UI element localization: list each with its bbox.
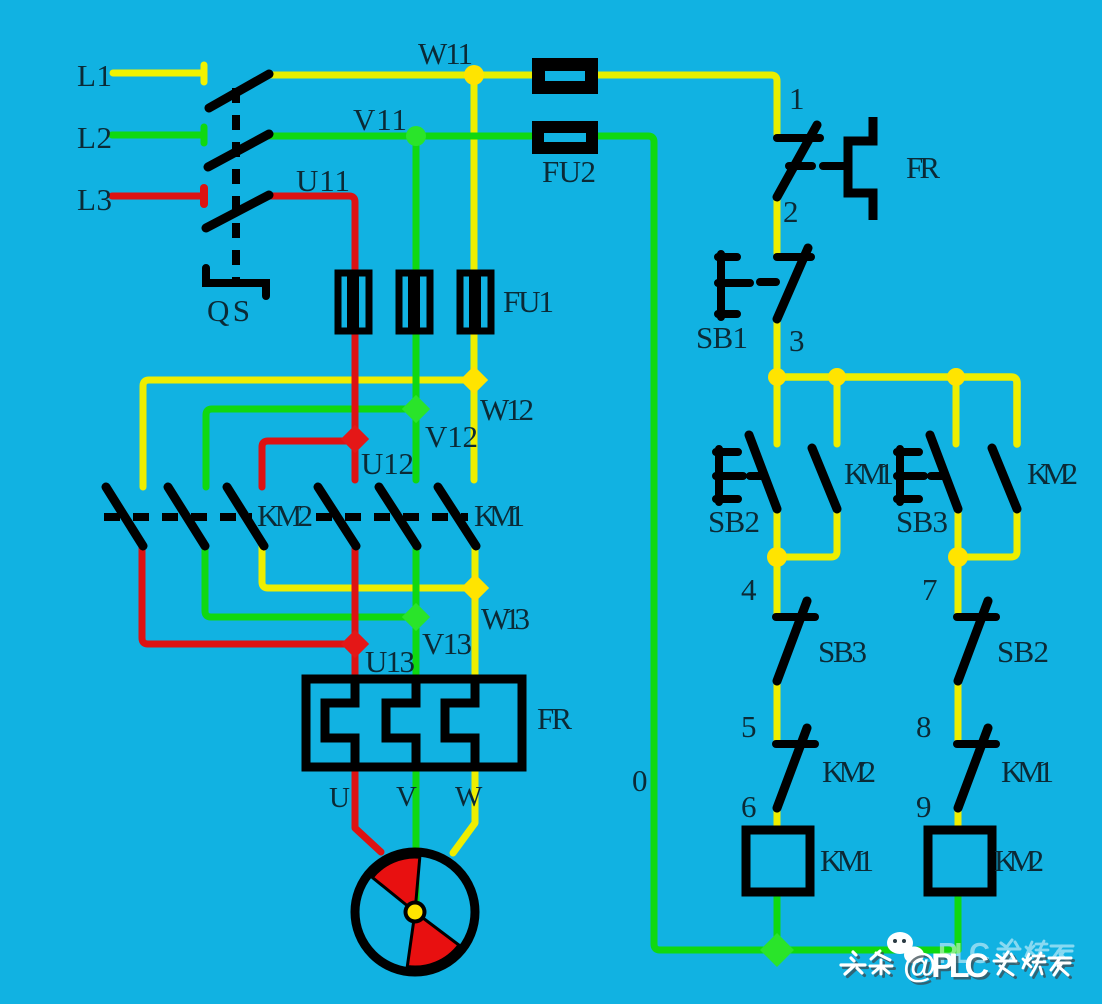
SB3 NC blade xyxy=(777,601,807,681)
wire L1 terminal cap xyxy=(201,65,208,82)
svg-text:3: 3 xyxy=(789,323,805,358)
watermark shadow layer xyxy=(844,950,1074,988)
SB3 NC fixed bar xyxy=(776,613,815,621)
KM2 main blade 1 xyxy=(106,487,143,546)
wire KM2 coil to bottom bus (green) xyxy=(955,893,962,950)
motor body ring xyxy=(355,852,475,972)
KM2 main blade 2 xyxy=(168,487,205,546)
svg-text:SB2: SB2 xyxy=(997,634,1049,669)
SB3 actuator dash xyxy=(931,472,944,480)
node 3c on control bus xyxy=(947,368,965,386)
FR contact fixed bar xyxy=(777,134,820,142)
wire L2 terminal cap xyxy=(201,127,208,143)
coil KM2 xyxy=(928,830,992,892)
node bottom bus junction xyxy=(760,933,794,967)
svg-text:SB3: SB3 xyxy=(818,634,867,669)
QS blade 2 xyxy=(208,134,269,167)
svg-text:V12: V12 xyxy=(425,419,478,454)
svg-text:8: 8 xyxy=(916,709,932,744)
svg-text:W13: W13 xyxy=(481,601,530,636)
wire W11: QS to FU2 to node 1 down to FR contact (yellow) xyxy=(269,75,777,134)
wire KM2 aux bottom to node 7 bus (yellow) xyxy=(958,508,1017,557)
KM1 linkage dashed xyxy=(316,513,468,521)
svg-text:U12: U12 xyxy=(361,446,414,481)
wire KM1 aux bottom to node 4 bus (yellow) xyxy=(777,508,837,557)
svg-text:U11: U11 xyxy=(296,163,350,198)
svg-text:KM1: KM1 xyxy=(844,456,894,491)
node 3a on control bus xyxy=(768,368,786,386)
SB1 blade xyxy=(777,248,808,319)
node U13 xyxy=(341,630,369,658)
wire KM1 pole1 bottom to FR heater1 (red) xyxy=(352,548,359,680)
wire KM1 NC to KM2 coil (yellow) xyxy=(955,806,962,830)
SB3 actuator E xyxy=(897,449,924,502)
watermark ghost fa xyxy=(998,940,1020,963)
FR contact link dash xyxy=(823,162,845,170)
wire L3 terminal cap xyxy=(200,188,208,204)
wire FR out V to motor centre (green) xyxy=(413,766,420,903)
FR contact blade xyxy=(777,125,817,197)
wire node4 to SB3 NC (yellow) xyxy=(774,557,781,617)
SB2 NC blade xyxy=(958,601,988,681)
node 7 xyxy=(948,547,968,567)
wire L3 input (red) xyxy=(112,193,204,200)
svg-text:FR: FR xyxy=(537,701,572,736)
KM2 NC fixed bar xyxy=(776,740,815,748)
svg-text:KM2: KM2 xyxy=(1027,456,1078,491)
node U12 xyxy=(341,425,369,453)
fuse FU2 a xyxy=(539,65,592,88)
wire KM2 pole1 bottom to U13 node (red) xyxy=(142,545,355,644)
svg-text:L3: L3 xyxy=(77,182,112,217)
KM2 aux blade xyxy=(992,448,1017,509)
KM2 main blade 3 xyxy=(227,487,264,546)
wire L2 input (green) xyxy=(112,132,204,139)
wire node2 FR-contact to SB1 (yellow) xyxy=(774,197,781,253)
svg-text:W: W xyxy=(455,781,483,813)
svg-text:QS: QS xyxy=(207,293,250,328)
svg-text:KM1: KM1 xyxy=(474,498,525,533)
KM2 NC blade xyxy=(777,728,807,808)
svg-text:9: 9 xyxy=(916,789,932,824)
wire KM1 coil to bottom bus (green) xyxy=(774,893,781,950)
watermark ghost you xyxy=(1051,946,1073,963)
coil KM1 xyxy=(746,830,810,892)
KM1 aux blade xyxy=(812,448,837,509)
wire V-phase vertical: V11 down through FU1 to V12 and KM1 pole2 (green) xyxy=(413,136,420,480)
svg-text:W12: W12 xyxy=(480,392,534,427)
wire FR out W to motor (yellow) xyxy=(453,766,475,853)
svg-text:FU2: FU2 xyxy=(542,154,596,189)
svg-text:7: 7 xyxy=(922,572,938,607)
svg-text:FR: FR xyxy=(906,150,940,185)
node 3b on control bus xyxy=(828,368,846,386)
svg-text:W11: W11 xyxy=(418,36,473,71)
SB1 actuator dash xyxy=(760,278,776,286)
SB1 actuator E xyxy=(718,254,750,317)
svg-text:V13: V13 xyxy=(422,626,472,661)
watermark icon bubbles xyxy=(887,932,924,964)
fuse FU2 b xyxy=(538,127,592,148)
node V11 xyxy=(406,126,426,146)
QS handle bracket xyxy=(206,268,266,296)
svg-text:U: U xyxy=(329,782,350,814)
wire KM2 NC to KM1 coil (yellow) xyxy=(774,806,781,830)
svg-text:KM2: KM2 xyxy=(257,498,313,533)
wire bus drop to SB2 (yellow) xyxy=(774,377,781,444)
fuse FU1 c xyxy=(460,273,491,331)
wire V12 branch left to KM2 pole2 (green) xyxy=(206,409,416,487)
wire W12 branch left to KM2 pole1 (yellow) xyxy=(143,380,474,487)
wire KM1 pole3 bottom to FR heater3 (yellow) xyxy=(472,548,479,680)
watermark ghost shao xyxy=(1026,941,1048,963)
node W13 xyxy=(461,574,489,602)
QS blade 3 xyxy=(206,195,269,228)
node V12 xyxy=(402,395,430,423)
wire KM2 pole2 bottom to V13 node (green) xyxy=(205,546,416,617)
svg-text:V: V xyxy=(396,781,417,813)
FR heater element symbol xyxy=(848,117,873,220)
motor shaft dot xyxy=(404,901,427,924)
svg-text:KM1: KM1 xyxy=(820,843,874,878)
wire bus drop to SB3 start (yellow) xyxy=(953,377,960,444)
svg-text:L2: L2 xyxy=(77,120,112,155)
QS blade 1 xyxy=(209,74,269,108)
KM1 main blade 1 xyxy=(318,487,356,546)
svg-text:KM2: KM2 xyxy=(994,843,1044,878)
SB2 blade xyxy=(749,435,777,509)
svg-text:KM2: KM2 xyxy=(822,754,876,789)
svg-text:V11: V11 xyxy=(353,102,407,137)
fuse FU1 b xyxy=(399,273,430,331)
QS linkage dashed line xyxy=(232,88,240,281)
wire KM1 pole2 bottom to FR heater2 (green) xyxy=(413,548,420,680)
KM1 main blade 3 xyxy=(438,487,476,546)
wire node7 to SB2 NC (yellow) xyxy=(955,557,962,617)
wire U11: QS blade3 right and down through FU1 to U12 and KM1 pole1 (red) xyxy=(269,196,355,480)
node 4 xyxy=(767,547,787,567)
FR box xyxy=(306,679,522,767)
FR heater 2 xyxy=(386,679,416,767)
wire control bus with right drop to KM2 aux (yellow) xyxy=(777,377,1017,444)
FR contact tick xyxy=(789,162,812,170)
wire KM2 pole3 bottom to W13 node (yellow) xyxy=(262,546,475,588)
svg-text:SB2: SB2 xyxy=(708,504,760,539)
node W11 xyxy=(464,65,484,85)
FR heater 3 xyxy=(445,679,475,767)
wire SB2 bottom to node 4 (yellow) xyxy=(774,508,781,557)
motor rotor wedge bottom xyxy=(407,912,459,967)
svg-text:6: 6 xyxy=(741,789,757,824)
svg-text:L1: L1 xyxy=(77,58,112,93)
svg-text:SB3: SB3 xyxy=(896,504,948,539)
wire U12 branch left to KM2 pole3 (red) xyxy=(262,441,355,487)
wire W-phase vertical: W11 node down through FU1 to W12 and KM1 pole3 (yellow) xyxy=(471,75,478,480)
SB2 actuator E xyxy=(716,449,743,502)
svg-text:0: 0 xyxy=(632,763,648,798)
wire bus drop to KM1 aux (yellow) xyxy=(834,377,841,444)
wire L1 input (yellow) xyxy=(113,70,204,77)
wire SB3 NC to KM2 NC (yellow) xyxy=(774,681,781,744)
svg-text:4: 4 xyxy=(741,572,757,607)
svg-text:U13: U13 xyxy=(365,644,415,679)
wire SB3start bottom to node 7 (yellow) xyxy=(955,508,962,557)
KM1 NC blade xyxy=(958,728,988,808)
svg-text:2: 2 xyxy=(783,194,799,229)
wire FR out U to motor (red) xyxy=(355,766,381,852)
svg-text:1: 1 xyxy=(789,81,805,116)
svg-text:5: 5 xyxy=(741,709,757,744)
watermark main layer xyxy=(841,947,1071,985)
SB3 blade xyxy=(930,435,958,509)
wire V11: QS to FU2 fuse B, then line 0 down and bottom bus (green) xyxy=(269,136,958,950)
FR heater 1 xyxy=(325,679,355,767)
SB2 NC fixed bar xyxy=(957,613,996,621)
wire SB2 NC to KM1 NC (yellow) xyxy=(955,681,962,744)
svg-text:@PLC: @PLC xyxy=(903,947,989,985)
KM1 NC fixed bar xyxy=(957,740,996,748)
KM1 main blade 2 xyxy=(379,487,417,546)
node V13 xyxy=(402,603,430,631)
motor rotor wedge top xyxy=(372,857,420,912)
svg-text:FU1: FU1 xyxy=(503,284,554,319)
svg-text:KM1: KM1 xyxy=(1001,754,1054,789)
wire node3 SB1 to control bus (yellow) xyxy=(774,319,781,377)
KM2 linkage dashed xyxy=(104,513,252,521)
node W12 xyxy=(460,366,488,394)
SB2 actuator dash xyxy=(750,472,763,480)
SB1 fixed bar xyxy=(777,253,811,261)
fuse FU1 a xyxy=(338,273,369,331)
svg-text:SB1: SB1 xyxy=(696,320,748,355)
